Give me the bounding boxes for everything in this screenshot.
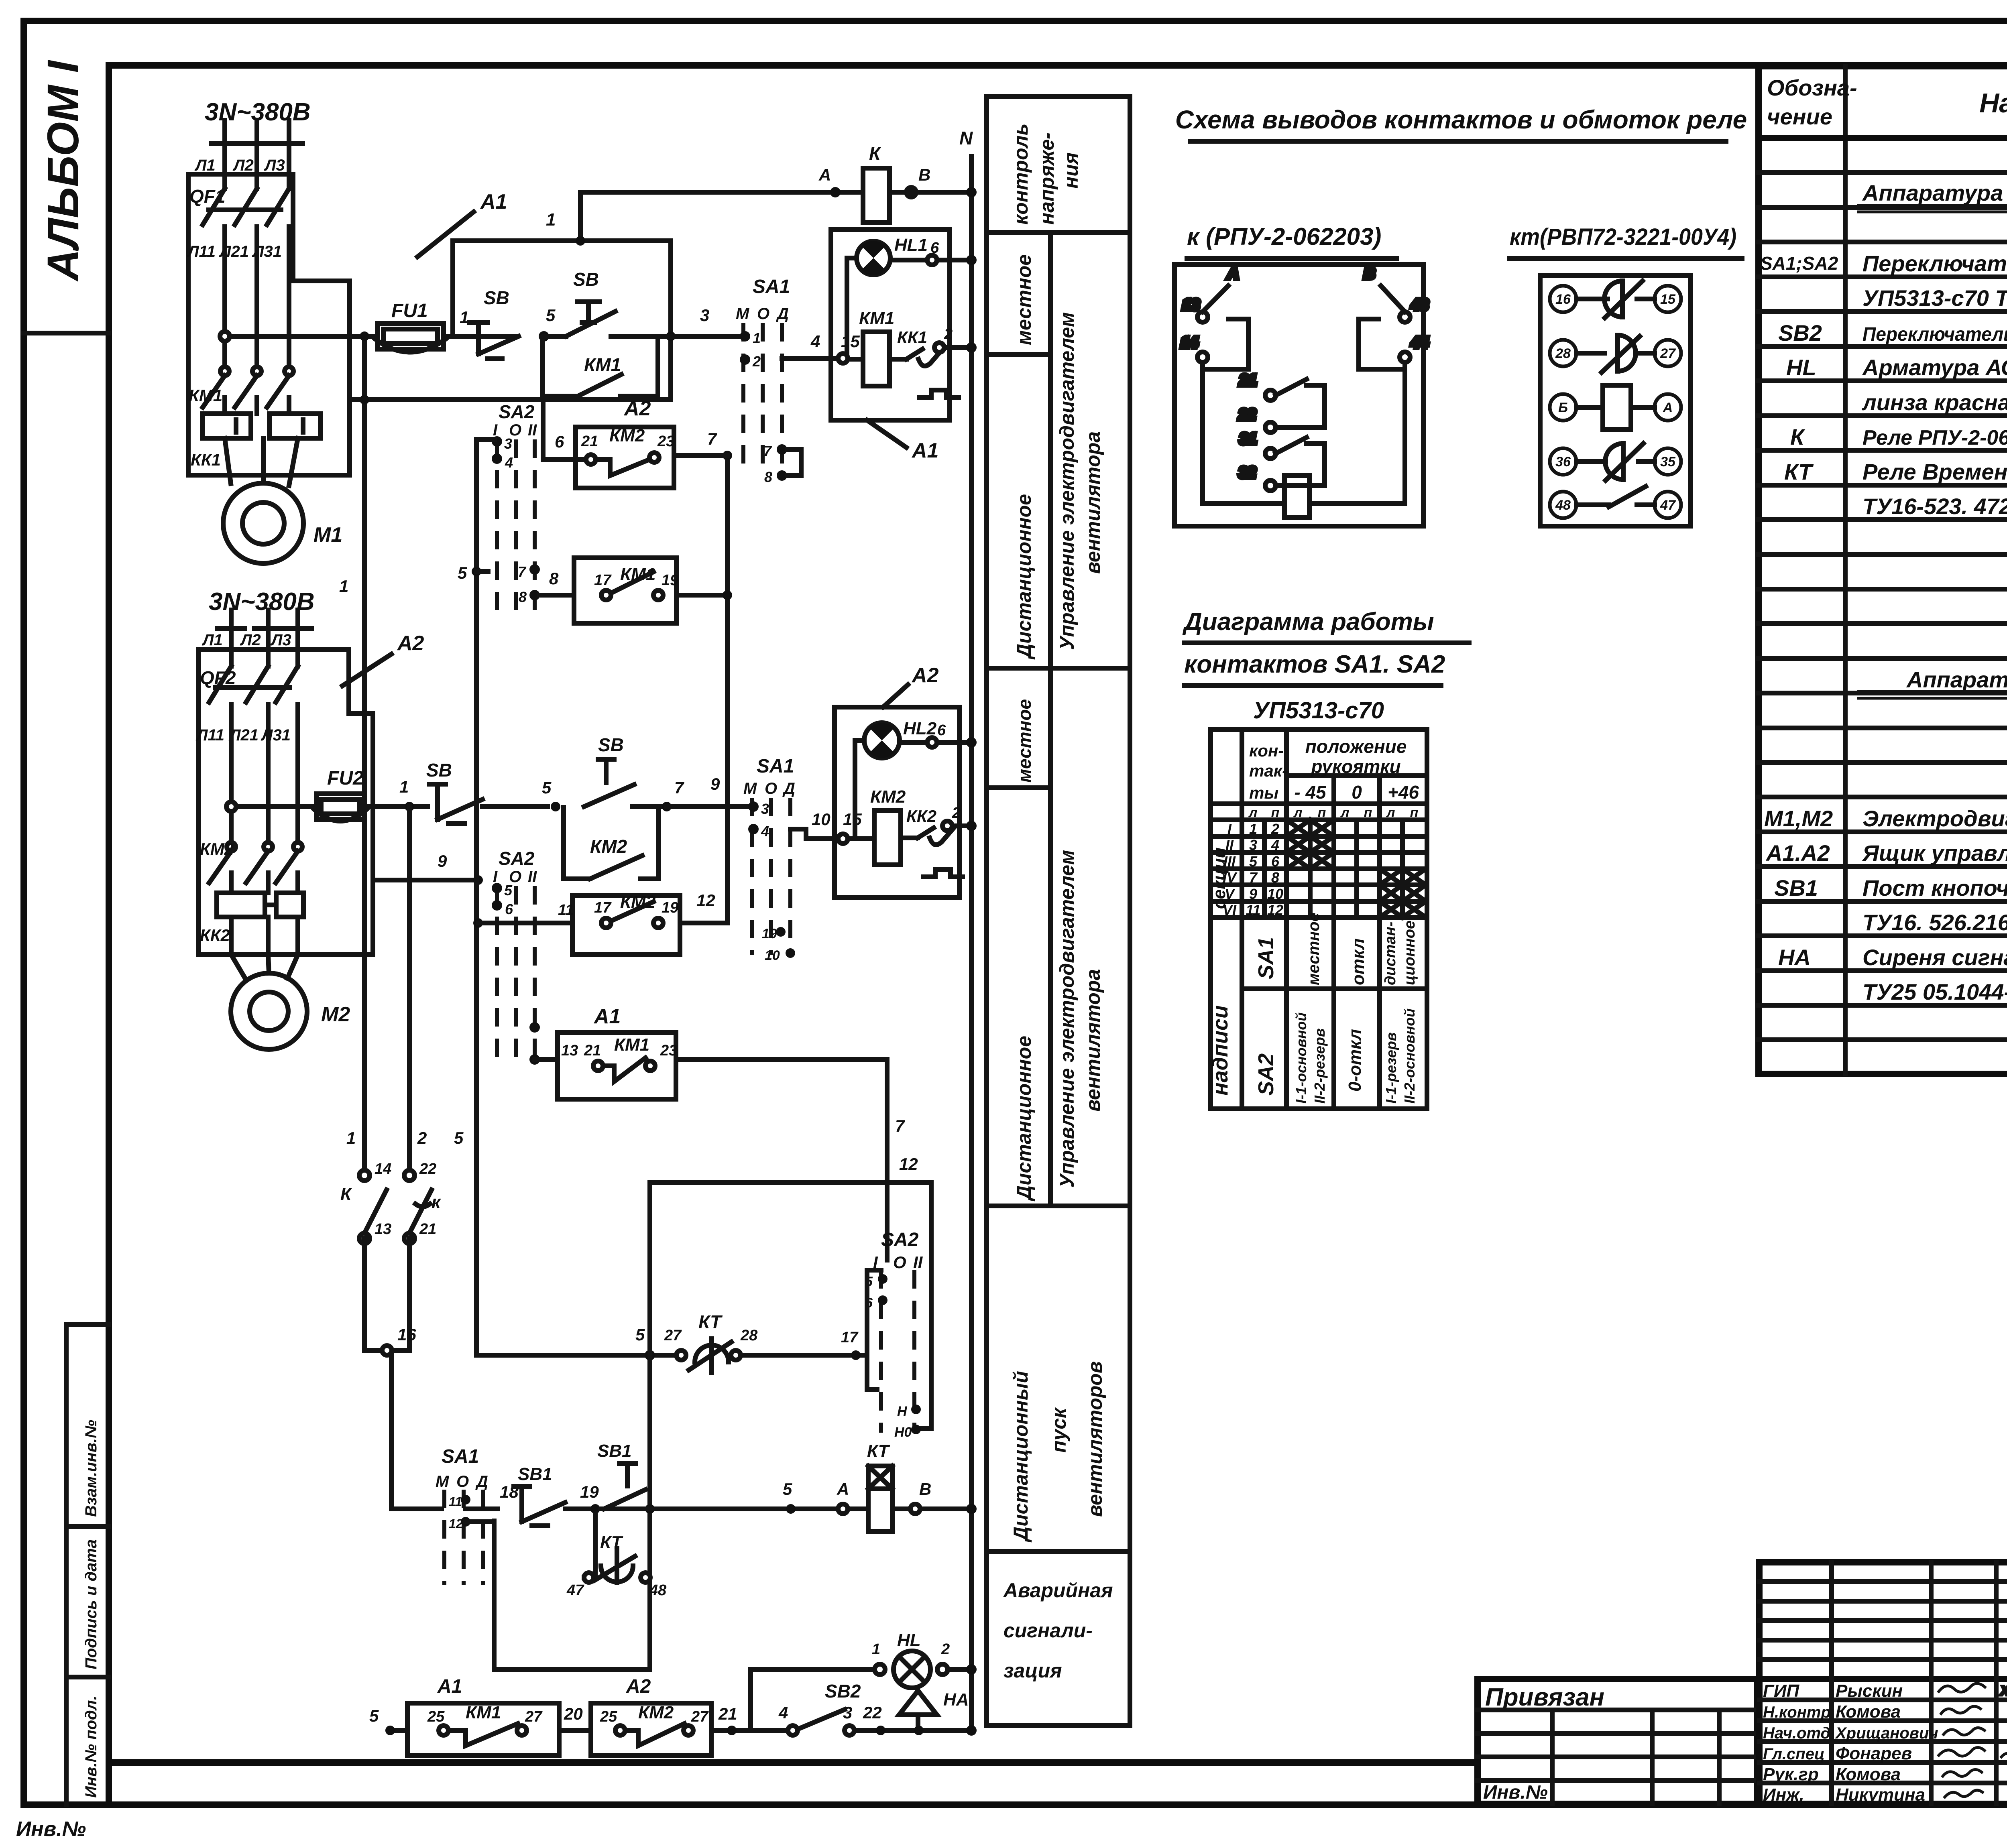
coil KM1 — [863, 332, 890, 386]
svg-text:ты: ты — [1249, 783, 1278, 802]
phase tap L2 (branch2) — [254, 610, 282, 649]
node 7 (branch2) — [662, 802, 672, 811]
svg-text:IV: IV — [1223, 869, 1238, 886]
X marks — [1286, 820, 1426, 917]
svg-text:28: 28 — [1555, 346, 1571, 361]
signature scribbles — [1939, 1683, 2007, 1797]
relay coil KT — [848, 1466, 977, 1531]
svg-text:1: 1 — [339, 577, 348, 596]
svg-text:КМ2: КМ2 — [870, 787, 906, 807]
wire node5 riser down — [494, 1183, 655, 1669]
svg-text:SA1: SA1 — [1254, 937, 1278, 979]
svg-text:Переключатель(тумблер)ТВ1-1 УС: Переключатель(тумблер)ТВ1-1 УС0.360,049Т… — [1862, 324, 2007, 345]
svg-text:2: 2 — [417, 1128, 427, 1147]
wire 12 step — [650, 1183, 931, 1429]
RIGHT COMPONENT TABLE — [1759, 66, 2007, 1074]
svg-text:31: 31 — [1240, 431, 1256, 447]
svg-text:SB: SB — [426, 760, 452, 781]
svg-text:12: 12 — [449, 1517, 463, 1531]
svg-text:I-1-основной: I-1-основной — [1293, 1012, 1309, 1104]
svg-text:6: 6 — [937, 722, 946, 739]
svg-text:Л11: Л11 — [187, 243, 216, 260]
svg-text:Дистанционное: Дистанционное — [1013, 1036, 1035, 1202]
svg-text:Арматура АС12011 ТУ16.535.930-: Арматура АС12011 ТУ16.535.930-76 — [1862, 355, 2007, 380]
box A1 aux (25 KM1 27) — [407, 1703, 591, 1755]
wire bus 2 — [407, 807, 412, 1175]
svg-text:43: 43 — [1411, 297, 1428, 313]
svg-text:SB1: SB1 — [597, 1441, 632, 1461]
svg-text:дистан-: дистан- — [1382, 922, 1399, 985]
svg-text:SB: SB — [598, 734, 624, 755]
svg-text:О: О — [765, 780, 777, 797]
svg-text:напряже-: напряже- — [1036, 132, 1058, 225]
svg-text:Управление электродвигателем: Управление электродвигателем — [1056, 850, 1078, 1188]
svg-text:19: 19 — [762, 926, 777, 941]
svg-text:КТ: КТ — [698, 1311, 723, 1332]
wire lamp to N — [890, 255, 971, 265]
svg-text:III: III — [1223, 853, 1236, 870]
svg-text:М: М — [736, 305, 750, 323]
svg-text:7: 7 — [707, 429, 717, 448]
svg-text:М: М — [436, 1473, 450, 1490]
svg-text:2: 2 — [1271, 821, 1279, 837]
svg-text:21: 21 — [584, 1042, 601, 1059]
svg-text:положение: положение — [1305, 736, 1407, 757]
svg-text:В: В — [1364, 265, 1375, 282]
contact KT 28-27 — [1576, 335, 1655, 372]
svg-text:п: п — [1410, 805, 1419, 820]
svg-text:II-2-основной: II-2-основной — [1401, 1008, 1418, 1104]
svg-text:л: л — [1340, 805, 1349, 820]
svg-text:2: 2 — [944, 326, 953, 343]
svg-text:17: 17 — [841, 1329, 859, 1346]
SECTION LABEL COLUMN — [987, 96, 1130, 1726]
svg-text:47: 47 — [1660, 498, 1676, 513]
svg-text:25: 25 — [600, 1708, 617, 1725]
svg-text:местное: местное — [1305, 913, 1323, 985]
svg-text:КМ1: КМ1 — [584, 354, 621, 375]
box A2 aux (25 KM2 27) — [591, 1703, 787, 1755]
svg-text:SB2: SB2 — [825, 1681, 861, 1702]
thermal contact KK2 — [901, 821, 963, 877]
svg-text:4: 4 — [810, 332, 820, 351]
svg-text:К: К — [869, 143, 881, 164]
wire 10 to box pin 15 (branch2) — [790, 829, 840, 839]
contact K 13-14 — [1181, 265, 1248, 369]
svg-text:КМ1: КМ1 — [466, 1703, 501, 1722]
svg-text:4: 4 — [505, 454, 513, 471]
node 16 merge — [364, 1238, 442, 1509]
svg-text:КК1: КК1 — [191, 450, 221, 469]
svg-text:25: 25 — [427, 1708, 445, 1725]
switch SA1 section I (M O A) — [736, 276, 801, 485]
svg-text:19: 19 — [662, 572, 678, 589]
svg-text:9: 9 — [438, 852, 447, 870]
svg-text:SB2: SB2 — [1778, 320, 1822, 346]
svg-text:27: 27 — [525, 1708, 543, 1725]
svg-text:УП5313-с70: УП5313-с70 — [1253, 697, 1384, 724]
svg-text:9: 9 — [710, 775, 720, 793]
svg-text:вентилятора: вентилятора — [1082, 431, 1104, 574]
svg-text:SA2: SA2 — [499, 848, 535, 869]
switch SA1 section II (M O D) — [743, 756, 795, 963]
node 1 (branch2) — [405, 802, 414, 811]
svg-text:3: 3 — [843, 1703, 852, 1722]
svg-text:вентилятора: вентилятора — [1082, 969, 1104, 1112]
svg-text:Взам.инв.№: Взам.инв.№ — [82, 1420, 100, 1517]
svg-text:0-откл: 0-откл — [1345, 1029, 1365, 1092]
svg-text:Инв.№: Инв.№ — [1483, 1782, 1548, 1803]
svg-text:Подпись и дата: Подпись и дата — [82, 1539, 100, 1669]
svg-text:зация: зация — [1003, 1659, 1062, 1682]
pushbutton SB start (branch1) — [544, 302, 741, 336]
svg-text:2: 2 — [952, 805, 961, 821]
wire 9 stub from cabinet — [373, 878, 478, 882]
svg-text:27: 27 — [1660, 346, 1676, 361]
siren HA — [899, 1691, 937, 1730]
svg-text:О: О — [893, 1253, 906, 1272]
svg-text:Инв.№ подл.: Инв.№ подл. — [82, 1696, 100, 1798]
svg-text:п: п — [1318, 805, 1326, 820]
svg-text:SA1;SA2: SA1;SA2 — [1760, 253, 1838, 274]
svg-text:Л3: Л3 — [270, 631, 291, 649]
svg-text:7: 7 — [1249, 869, 1258, 886]
wire pin2 to N (branch2) — [952, 823, 971, 828]
pushbutton SB stop (branch1) — [470, 323, 519, 359]
svg-text:КМ2: КМ2 — [638, 1703, 674, 1722]
wire bus 5 — [474, 439, 479, 1355]
svg-text:SA1: SA1 — [442, 1446, 479, 1467]
svg-text:НА: НА — [943, 1690, 969, 1710]
svg-text:вентиляторов: вентиляторов — [1084, 1361, 1106, 1517]
svg-text:8: 8 — [549, 569, 559, 588]
svg-text:ционное: ционное — [1401, 921, 1418, 985]
svg-text:19: 19 — [662, 899, 678, 916]
svg-text:М1,М2: М1,М2 — [1764, 806, 1833, 831]
coil KM2 — [874, 811, 901, 865]
coil K — [1203, 362, 1405, 518]
svg-text:Инж.: Инж. — [1763, 1785, 1804, 1805]
svg-text:4: 4 — [761, 823, 769, 840]
MIDDLE SECTION — [1174, 105, 1747, 1109]
verticals — [1242, 730, 1402, 1109]
svg-text:SA1: SA1 — [753, 276, 790, 297]
contact K 31-32 — [1239, 431, 1325, 491]
svg-text:Л3: Л3 — [264, 157, 285, 174]
svg-text:Инв.№: Инв.№ — [16, 1818, 86, 1841]
svg-text:16: 16 — [397, 1325, 416, 1344]
contact K 21-22 (on bus 2) — [404, 1170, 432, 1244]
breaker QF2 poles — [209, 649, 298, 843]
svg-text:кон-: кон- — [1249, 741, 1284, 760]
svg-text:линза красная: линза красная — [1861, 390, 2007, 415]
svg-text:11: 11 — [449, 1494, 462, 1509]
relay KT pinout box — [1540, 275, 1691, 526]
svg-text:А2: А2 — [911, 664, 939, 687]
aux row C: box A1 (13 21 KM1 23) — [535, 1033, 887, 1099]
svg-text:Дистанционный: Дистанционный — [1010, 1371, 1032, 1543]
svg-text:Н: Н — [897, 1404, 908, 1419]
svg-text:Пост кнопочный ПКЕ-212-2У3: Пост кнопочный ПКЕ-212-2У3 — [1862, 875, 2007, 901]
switch SA1 section III (M O A) — [436, 1446, 498, 1585]
svg-text:19: 19 — [580, 1482, 599, 1501]
svg-text:Д: Д — [475, 1473, 488, 1490]
svg-text:л: л — [1386, 805, 1395, 820]
svg-text:1: 1 — [872, 1641, 880, 1658]
svg-text:Комова: Комова — [1836, 1702, 1901, 1722]
svg-text:А1: А1 — [480, 190, 507, 213]
svg-text:Л1: Л1 — [194, 157, 216, 174]
box A2 control (KM2 coil unit) — [835, 707, 959, 897]
svg-text:п: п — [1271, 805, 1280, 820]
wire loop down to link row — [668, 241, 673, 400]
svg-text:так-: так- — [1249, 761, 1288, 780]
svg-text:Комова: Комова — [1836, 1765, 1901, 1784]
svg-text:АЛЬБОМ I: АЛЬБОМ I — [39, 60, 88, 282]
svg-text:N: N — [959, 128, 973, 148]
svg-text:Сиреня сигнальная СС-1: Сиреня сигнальная СС-1 220В — [1862, 945, 2007, 970]
svg-text:VI: VI — [1223, 902, 1237, 918]
heading: Диаграмма работы контактов SA1,SA2 — [1182, 608, 1469, 685]
svg-text:чение: чение — [1767, 104, 1832, 129]
svg-text:л: л — [1248, 805, 1257, 820]
pushbutton SB stop (branch2) — [429, 784, 548, 823]
svg-text:47: 47 — [566, 1582, 584, 1599]
svg-text:SA2: SA2 — [499, 401, 535, 422]
pin 15 (branch2) — [838, 834, 848, 844]
svg-text:местное: местное — [1014, 699, 1035, 783]
svg-text:3: 3 — [504, 435, 512, 452]
wire control line 1 — [453, 238, 671, 243]
motor M2 — [231, 955, 307, 1049]
svg-text:Рук.гр: Рук.гр — [1763, 1765, 1819, 1784]
svg-text:SB1: SB1 — [518, 1464, 552, 1484]
svg-text:Аппаратура по месту: Аппаратура по месту — [1906, 667, 2007, 692]
svg-text:Электродвигатель 380В: Электродвигатель 380В — [1862, 806, 2007, 831]
svg-text:ния: ния — [1060, 152, 1082, 189]
svg-text:15: 15 — [843, 810, 862, 829]
motor M1 — [223, 483, 303, 563]
svg-text:Управление электродвигателем: Управление электродвигателем — [1056, 312, 1078, 650]
svg-text:Л31: Л31 — [261, 726, 291, 744]
svg-text:V: V — [1225, 886, 1236, 902]
svg-text:6: 6 — [1271, 853, 1280, 870]
svg-text:10: 10 — [1267, 886, 1283, 902]
svg-text:А1: А1 — [593, 1005, 621, 1028]
svg-text:II: II — [913, 1253, 923, 1272]
svg-text:Аппаратура на щите автоматизац: Аппаратура на щите автоматизации В2 — [1862, 180, 2007, 205]
heading: Схема выводов контактов и обмоток реле — [1175, 105, 1747, 141]
svg-text:7: 7 — [518, 563, 527, 580]
svg-text:15: 15 — [1660, 292, 1676, 307]
svg-text:21: 21 — [1239, 372, 1256, 389]
wire 9 to selector — [667, 804, 752, 809]
left margin stamp cells — [64, 1324, 69, 1805]
svg-text:ТУ16-523. 472-79: ТУ16-523. 472-79 — [1862, 494, 2007, 519]
svg-text:А: А — [818, 165, 831, 184]
svg-text:5: 5 — [635, 1325, 645, 1344]
contactor KM2 holding contact — [564, 807, 658, 879]
svg-text:13: 13 — [561, 1042, 578, 1059]
svg-text:К: К — [340, 1184, 352, 1204]
wire vertical 7/12 riser — [725, 455, 730, 923]
svg-text:I-1-резерв: I-1-резерв — [1383, 1032, 1399, 1104]
svg-text:21: 21 — [718, 1704, 737, 1723]
svg-text:Л1: Л1 — [202, 631, 223, 649]
svg-text:SB: SB — [484, 287, 509, 308]
bus N — [966, 157, 977, 1730]
svg-text:Наименование: Наименование — [1979, 88, 2007, 118]
svg-text:А: А — [1663, 400, 1673, 415]
aux row A: wire 8 / KM1 17-19 — [539, 558, 727, 623]
svg-text:48: 48 — [649, 1582, 667, 1599]
svg-text:контактов SA1. SA2: контактов SA1. SA2 — [1184, 651, 1445, 678]
svg-text:к: к — [432, 1192, 442, 1212]
svg-text:23: 23 — [657, 433, 674, 450]
svg-text:Б: Б — [1558, 400, 1568, 415]
svg-text:7: 7 — [763, 443, 772, 459]
wire bus 1 — [362, 336, 367, 1175]
svg-text:20: 20 — [564, 1704, 583, 1723]
contact K 21-22 — [1238, 372, 1325, 433]
box A2 aux (KM2 21-23) — [543, 396, 727, 488]
wire pin2 to N — [944, 345, 971, 350]
svg-text:сигнали-: сигнали- — [1003, 1619, 1093, 1642]
svg-text:О: О — [757, 305, 769, 323]
svg-text:44: 44 — [1411, 334, 1428, 351]
svg-text:2: 2 — [941, 1641, 950, 1658]
svg-text:0: 0 — [1352, 782, 1362, 803]
svg-text:А1: А1 — [437, 1676, 462, 1697]
thermal relay KK1 heaters — [203, 414, 320, 486]
svg-text:1: 1 — [1249, 821, 1257, 837]
svg-text:К: К — [1790, 424, 1805, 449]
svg-text:л: л — [1293, 805, 1302, 820]
inner top rule — [109, 62, 2007, 69]
svg-text:Л11: Л11 — [195, 726, 224, 744]
svg-text:8: 8 — [1271, 869, 1279, 886]
svg-text:5: 5 — [542, 778, 552, 797]
svg-text:11: 11 — [558, 902, 574, 919]
svg-text:Н.контр: Н.контр — [1763, 1704, 1831, 1721]
callout A2 — [342, 632, 424, 686]
svg-text:12: 12 — [1267, 902, 1283, 918]
contact KT 16-15 — [1576, 281, 1655, 318]
svg-text:1: 1 — [546, 210, 556, 230]
svg-text:пуск: пуск — [1048, 1407, 1070, 1453]
UP5313-c70 switch diagram table — [1208, 697, 1427, 1109]
svg-text:SB1: SB1 — [1774, 875, 1818, 901]
lamp HL1 — [857, 235, 939, 275]
label: кт (РВП72-3221-00У4) — [1510, 224, 1742, 258]
node 5 (branch2) — [551, 802, 560, 811]
svg-text:II: II — [528, 421, 537, 439]
svg-text:Л2: Л2 — [240, 631, 261, 649]
svg-text:Аварийная: Аварийная — [1003, 1579, 1113, 1602]
phase tap L1 — [211, 120, 238, 174]
svg-text:9: 9 — [1249, 886, 1257, 902]
svg-text:А1: А1 — [911, 439, 938, 462]
svg-text:23: 23 — [660, 1042, 677, 1059]
svg-text:КК2: КК2 — [906, 807, 936, 825]
svg-text:HL1: HL1 — [894, 235, 928, 255]
svg-text:откл: откл — [1348, 938, 1368, 985]
svg-text:Фонарев: Фонарев — [1836, 1744, 1912, 1763]
svg-text:I: I — [1227, 821, 1232, 837]
svg-text:Обозна-: Обозна- — [1767, 75, 1857, 100]
contact KT 36-35 — [1576, 443, 1655, 480]
svg-text:15: 15 — [841, 332, 860, 351]
svg-text:5: 5 — [454, 1128, 464, 1147]
phase tap L3 — [275, 120, 303, 174]
svg-text:М2: М2 — [321, 1003, 350, 1026]
svg-text:Диаграмма работы: Диаграмма работы — [1182, 608, 1434, 636]
svg-text:Схема выводов контактов и обмо: Схема выводов контактов и обмоток реле — [1175, 105, 1747, 134]
album label — [24, 331, 109, 335]
svg-text:ТУ16. 526.216-77: ТУ16. 526.216-77 — [1862, 910, 2007, 935]
switch SA2 section II (branch2 aux) — [492, 848, 540, 1065]
wire lamp2 to N — [900, 737, 977, 748]
wire 7 drop to SA2-II — [885, 1059, 890, 1260]
svg-text:М1: М1 — [313, 523, 342, 547]
svg-text:В: В — [918, 165, 930, 184]
pushbutton SB1 stop — [514, 1486, 590, 1526]
svg-text:SA2: SA2 — [1254, 1053, 1278, 1096]
svg-text:HL: HL — [897, 1630, 921, 1650]
box A1 control (KM1 coil unit) — [831, 230, 950, 420]
node 7 (aux) — [723, 451, 732, 460]
svg-text:О: О — [456, 1473, 469, 1490]
wire lamp2 to coil — [855, 740, 864, 838]
svg-text:6: 6 — [555, 432, 564, 451]
svg-text:17: 17 — [594, 572, 612, 589]
pushbutton SB start (branch2) — [584, 759, 667, 807]
svg-text:36: 36 — [1555, 454, 1571, 470]
svg-text:13: 13 — [1183, 297, 1199, 313]
box A1 cabinet (QF1/KM1/KK1) — [188, 174, 350, 475]
svg-text:SA2: SA2 — [881, 1229, 919, 1250]
svg-text:А2: А2 — [626, 1676, 651, 1697]
svg-text:местное: местное — [1013, 254, 1035, 345]
svg-text:КМ2: КМ2 — [620, 892, 656, 912]
svg-text:Д: Д — [782, 780, 795, 797]
svg-text:ТУ25 05.1044-76: ТУ25 05.1044-76 — [1862, 979, 2007, 1004]
svg-text:В: В — [919, 1480, 931, 1498]
contactor KM1 main contacts — [203, 367, 293, 414]
svg-text:Х1.84: Х1.84 — [2000, 1683, 2007, 1698]
thermal relay KK2 heaters — [217, 893, 303, 955]
svg-text:SA1: SA1 — [757, 756, 794, 777]
svg-text:5: 5 — [369, 1706, 379, 1725]
svg-text:2: 2 — [752, 353, 761, 370]
svg-text:КТ: КТ — [600, 1533, 623, 1552]
node 19 — [590, 1504, 600, 1514]
fuse FU1 — [220, 323, 515, 349]
switch SA2 section I (branch1 aux) — [492, 401, 540, 610]
svg-text:FU2: FU2 — [327, 768, 364, 789]
svg-text:3: 3 — [1249, 837, 1257, 853]
svg-text:Д: Д — [776, 305, 789, 323]
svg-text:надписи: надписи — [1208, 1005, 1232, 1096]
svg-text:32: 32 — [1239, 464, 1256, 481]
svg-text:А1.А2: А1.А2 — [1765, 840, 1830, 866]
callout A1 control box — [867, 420, 938, 462]
svg-text:35: 35 — [1660, 454, 1676, 470]
svg-text:А2: А2 — [623, 397, 651, 420]
svg-text:Нач.отд: Нач.отд — [1763, 1724, 1830, 1742]
svg-text:27: 27 — [691, 1708, 709, 1725]
svg-text:КМ1: КМ1 — [859, 309, 894, 328]
